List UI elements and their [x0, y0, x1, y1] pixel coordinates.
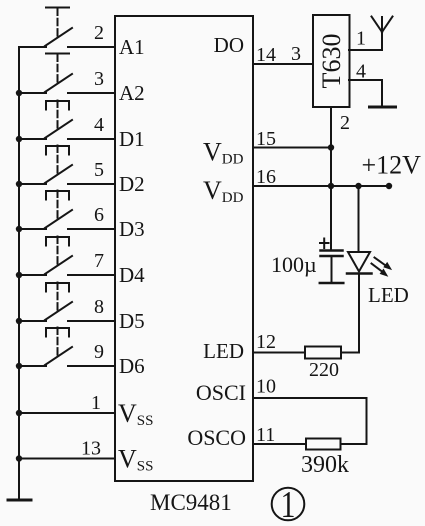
svg-text:7: 7	[94, 250, 104, 272]
svg-text:A1: A1	[119, 35, 145, 59]
svg-text:LED: LED	[203, 339, 244, 363]
svg-text:MC9481: MC9481	[150, 490, 232, 515]
svg-text:2: 2	[94, 22, 104, 44]
svg-text:1: 1	[356, 28, 366, 50]
svg-text:LED: LED	[368, 283, 409, 307]
svg-text:4: 4	[94, 114, 104, 136]
svg-text:13: 13	[81, 438, 101, 460]
svg-text:8: 8	[94, 296, 104, 318]
svg-text:220: 220	[309, 359, 339, 381]
svg-text:D5: D5	[119, 309, 145, 333]
svg-text:T630: T630	[317, 34, 346, 89]
svg-text:390k: 390k	[301, 452, 349, 478]
svg-text:D1: D1	[119, 127, 145, 151]
svg-text:DO: DO	[214, 33, 244, 57]
svg-text:2: 2	[340, 112, 350, 134]
svg-text:10: 10	[256, 376, 276, 398]
svg-text:16: 16	[256, 166, 276, 188]
svg-text:+12V: +12V	[362, 151, 422, 180]
svg-text:3: 3	[94, 68, 104, 90]
svg-text:A2: A2	[119, 81, 145, 105]
svg-text:6: 6	[94, 204, 104, 226]
svg-text:100µ: 100µ	[271, 252, 317, 277]
svg-text:D6: D6	[119, 354, 145, 378]
svg-text:OSCI: OSCI	[196, 380, 246, 405]
svg-text:15: 15	[256, 128, 276, 150]
svg-text:14: 14	[256, 44, 276, 66]
svg-text:D3: D3	[119, 217, 145, 241]
svg-text:D2: D2	[119, 172, 145, 196]
svg-text:3: 3	[291, 43, 301, 65]
svg-text:11: 11	[256, 424, 275, 446]
svg-text:1: 1	[281, 485, 296, 526]
svg-text:1: 1	[91, 392, 101, 414]
svg-text:9: 9	[94, 341, 104, 363]
svg-text:5: 5	[94, 159, 104, 181]
svg-text:4: 4	[356, 61, 366, 83]
svg-text:D4: D4	[119, 263, 145, 287]
svg-text:OSCO: OSCO	[187, 425, 246, 450]
svg-text:12: 12	[256, 331, 276, 353]
